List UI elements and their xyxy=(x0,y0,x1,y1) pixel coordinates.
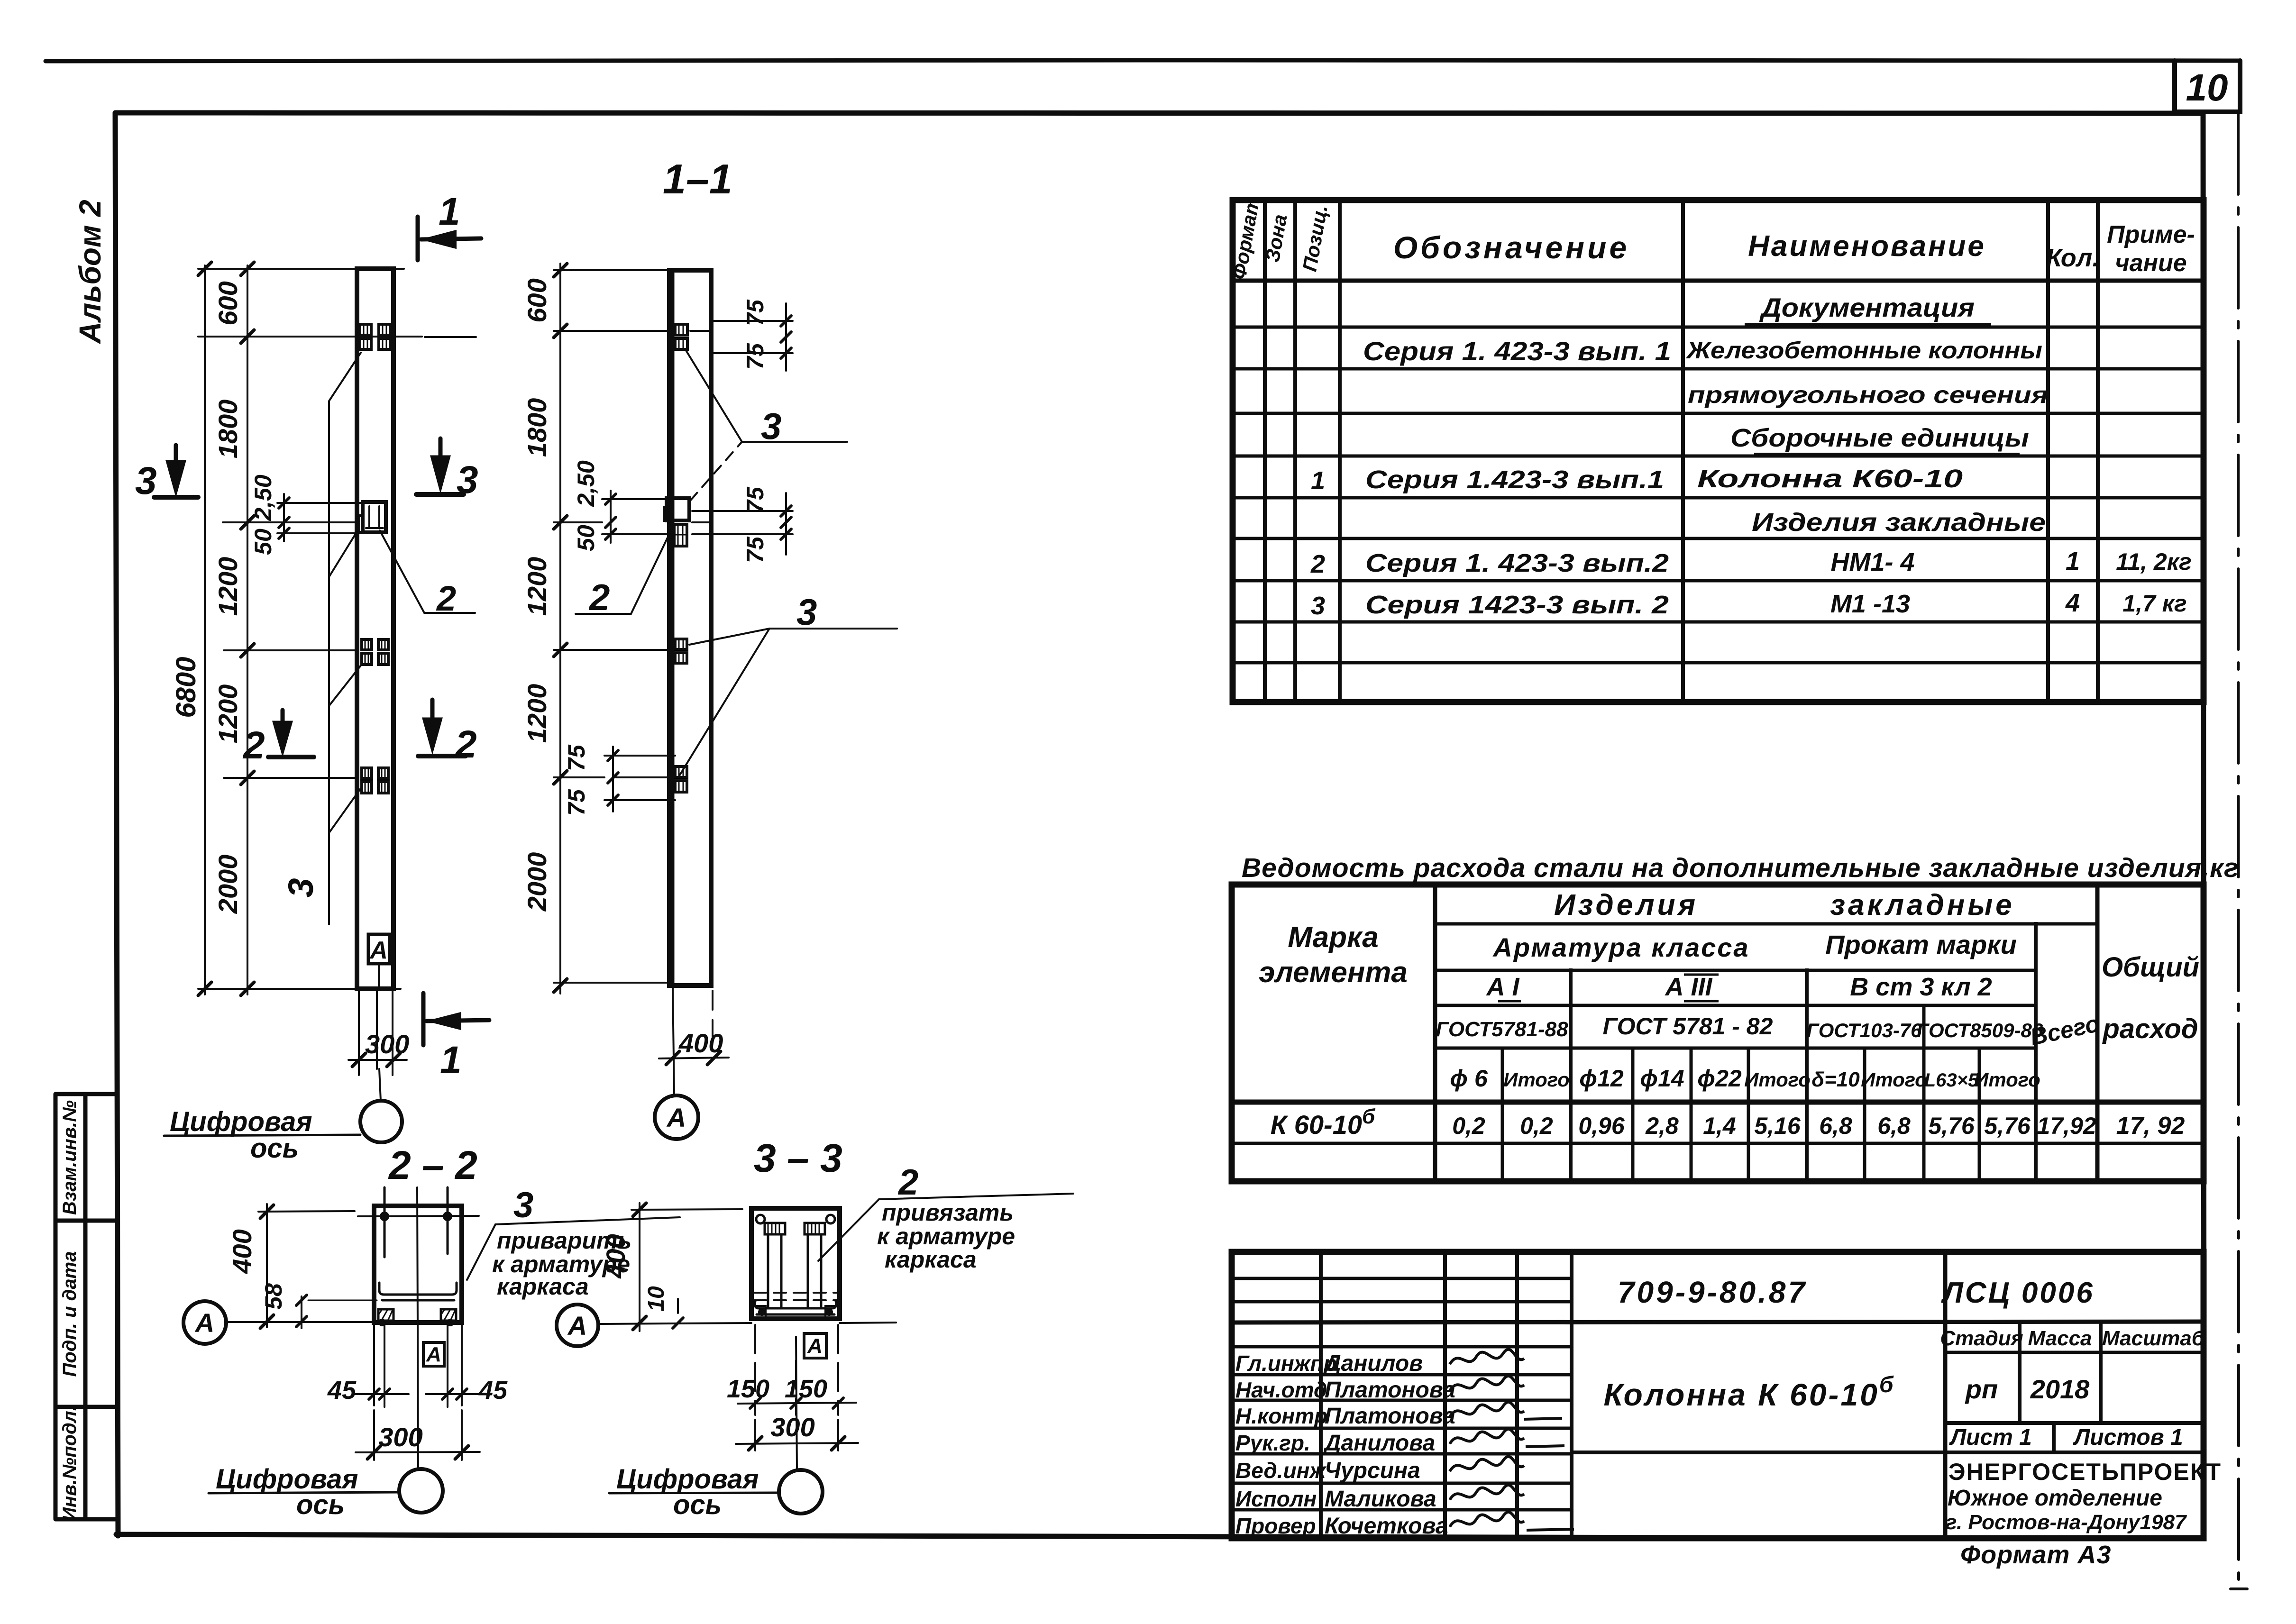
dim 300 below 3-3 xyxy=(755,1420,838,1451)
svg-text:А: А xyxy=(567,1311,587,1341)
svg-text:10: 10 xyxy=(2186,66,2228,109)
svg-text:Н.контр: Н.контр xyxy=(1235,1404,1327,1428)
section mark 3 (right of column 1) xyxy=(416,438,464,494)
svg-text:А: А xyxy=(426,1343,441,1366)
steel table horizontals xyxy=(1435,922,2097,926)
sheet top trim line xyxy=(46,60,2240,61)
leader line pos 2 (column 1) xyxy=(380,530,475,613)
section mark 3 (left) xyxy=(154,445,198,497)
title block outer border xyxy=(1232,1252,2204,1538)
svg-text:2 – 2: 2 – 2 xyxy=(388,1143,477,1187)
svg-text:Итого: Итого xyxy=(1974,1068,2040,1091)
svg-text:2018: 2018 xyxy=(2030,1374,2090,1404)
svg-text:ГОСТ5781-88: ГОСТ5781-88 xyxy=(1436,1018,1568,1041)
svg-text:элемента: элемента xyxy=(1259,956,1408,989)
svg-text:1–1: 1–1 xyxy=(663,155,732,202)
svg-text:Итого: Итого xyxy=(1861,1068,1927,1091)
svg-text:ГОСТ103-76: ГОСТ103-76 xyxy=(1806,1019,1922,1041)
svg-text:300: 300 xyxy=(365,1029,409,1059)
svg-text:Листов 1: Листов 1 xyxy=(2073,1425,2183,1450)
svg-text:1200: 1200 xyxy=(213,557,243,616)
axis circle below 3-3 xyxy=(779,1470,823,1514)
column K60-10 body (view 1) xyxy=(357,269,393,989)
svg-text:М1 -13: М1 -13 xyxy=(1830,590,1910,618)
leader line pos 3 (column 1) xyxy=(329,353,361,924)
centerline of 2-2 xyxy=(417,1187,418,1469)
svg-text:6,8: 6,8 xyxy=(1877,1113,1911,1139)
svg-text:45: 45 xyxy=(478,1376,508,1405)
svg-text:Итого: Итого xyxy=(1503,1068,1570,1091)
dims 75/75 left of lower plate xyxy=(604,756,675,800)
svg-text:75: 75 xyxy=(742,343,768,370)
bottom dim 400 of view 1-1 xyxy=(655,987,729,1139)
embedded plates pair at 3rd mark xyxy=(362,768,372,778)
svg-text:5,76: 5,76 xyxy=(1984,1113,2031,1139)
svg-text:400: 400 xyxy=(227,1229,257,1274)
section mark 1 (bottom) xyxy=(423,993,489,1045)
svg-text:каркаса: каркаса xyxy=(885,1246,977,1273)
svg-text:А: А xyxy=(194,1308,214,1338)
svg-text:2: 2 xyxy=(436,579,456,618)
drawing frame xyxy=(116,113,2203,113)
svg-text:2: 2 xyxy=(588,576,610,618)
leader pos 3 (bottom, view 1-1) xyxy=(689,629,897,645)
centerline of 3-3 xyxy=(796,1337,797,1470)
dim 58 xyxy=(301,1296,302,1328)
svg-text:Альбом 2: Альбом 2 xyxy=(73,200,107,344)
svg-text:1: 1 xyxy=(439,190,460,233)
svg-text:ГОСТ 5781 - 82: ГОСТ 5781 - 82 xyxy=(1603,1013,1773,1040)
section mark 2 (left) xyxy=(268,710,314,757)
section 2-2 outline xyxy=(374,1206,462,1323)
svg-text:δ=10: δ=10 xyxy=(1811,1068,1860,1091)
svg-text:L63×5: L63×5 xyxy=(1924,1070,1979,1091)
svg-text:ЭНЕРГОСЕТЬПРОЕКТ: ЭНЕРГОСЕТЬПРОЕКТ xyxy=(1948,1459,2222,1485)
extra signature flourishes xyxy=(1524,1418,1574,1530)
sheet number box xyxy=(2175,61,2240,112)
plate M1-13 on view 1-1 (top) xyxy=(675,324,687,335)
dim 400 (section 2-2) xyxy=(266,1204,268,1327)
svg-text:Провер: Провер xyxy=(1235,1514,1316,1538)
svg-text:ось: ось xyxy=(250,1133,299,1164)
svg-text:1: 1 xyxy=(1311,466,1325,495)
extension lines xyxy=(198,268,404,270)
svg-text:Формат А3: Формат А3 xyxy=(1960,1541,2111,1569)
svg-text:3: 3 xyxy=(761,405,781,447)
svg-text:Маликова: Маликова xyxy=(1325,1487,1436,1512)
small dims 250 / 50 at HM plate xyxy=(277,503,363,533)
bottom plate xyxy=(755,1301,836,1308)
svg-text:Масштаб: Масштаб xyxy=(2102,1327,2205,1350)
embedded plates M1-13 pair at 600 mark xyxy=(360,324,371,335)
svg-text:К 60-10б: К 60-10б xyxy=(1271,1105,1376,1140)
spec table horizontals xyxy=(1233,279,2204,283)
svg-text:А: А xyxy=(369,937,388,964)
dims 45 / 45 below 2-2 xyxy=(209,1324,481,1513)
svg-text:Стадия: Стадия xyxy=(1940,1327,2023,1350)
svg-text:Вед.инж: Вед.инж xyxy=(1235,1458,1326,1483)
axis line and circle A (section 2-2) xyxy=(226,1321,374,1323)
svg-text:3: 3 xyxy=(281,878,320,897)
dims 250/50 left of HM unit xyxy=(602,499,674,534)
svg-text:Итого: Итого xyxy=(1744,1068,1811,1091)
svg-text:Данилова: Данилова xyxy=(1323,1431,1435,1456)
svg-text:Масса: Масса xyxy=(2028,1327,2092,1350)
dims 150/150 below 3-3 xyxy=(609,1325,858,1514)
svg-text:75: 75 xyxy=(742,536,768,563)
leader pos 2 (view 1-1) xyxy=(576,533,670,614)
svg-text:каркаса: каркаса xyxy=(497,1273,589,1300)
svg-text:Подп. и дата: Подп. и дата xyxy=(59,1251,80,1377)
embedded plates pair at 2nd mark xyxy=(362,639,372,650)
svg-text:прямоугольного сечения: прямоугольного сечения xyxy=(1688,382,2048,408)
svg-text:3 – 3: 3 – 3 xyxy=(754,1136,842,1180)
svg-text:ГОСТ8509-86: ГОСТ8509-86 xyxy=(1917,1019,2043,1041)
svg-text:2: 2 xyxy=(1310,550,1325,578)
steel table verticals xyxy=(1433,885,1437,1181)
dim 300 below 2-2 xyxy=(374,1410,462,1460)
svg-text:А: А xyxy=(807,1334,823,1358)
svg-text:Ведомость расхода стали на доп: Ведомость расхода стали на дополнительны… xyxy=(1242,853,2239,883)
svg-text:2000: 2000 xyxy=(213,855,243,914)
svg-text:17,92: 17,92 xyxy=(2037,1113,2096,1139)
svg-text:Нач.отд: Нач.отд xyxy=(1235,1378,1327,1402)
svg-text:11, 2кг: 11, 2кг xyxy=(2116,548,2192,575)
svg-text:3: 3 xyxy=(135,459,157,502)
bent plate inside 2-2 xyxy=(379,1283,457,1295)
svg-text:1,4: 1,4 xyxy=(1703,1113,1736,1139)
svg-text:2,50: 2,50 xyxy=(250,474,276,521)
boxed A mark (2-2) xyxy=(423,1342,444,1366)
svg-text:НМ1- 4: НМ1- 4 xyxy=(1830,548,1914,576)
svg-text:600: 600 xyxy=(522,278,552,322)
svg-text:1200: 1200 xyxy=(213,684,243,744)
svg-text:3: 3 xyxy=(513,1185,533,1225)
svg-text:Прокат марки: Прокат марки xyxy=(1825,930,2017,959)
svg-text:Серия 1. 423-3 вып.2: Серия 1. 423-3 вып.2 xyxy=(1365,549,1669,577)
chain dim line (600/1800/1200/1200/2000) xyxy=(247,265,248,994)
svg-text:300: 300 xyxy=(378,1422,422,1452)
svg-text:чание: чание xyxy=(2115,249,2186,277)
svg-text:45: 45 xyxy=(327,1376,357,1405)
title block verticals xyxy=(1321,1252,1572,1538)
svg-text:75: 75 xyxy=(563,744,590,771)
dim 400 (section 3-3) xyxy=(639,1203,640,1331)
svg-text:ϕ14: ϕ14 xyxy=(1640,1065,1684,1092)
svg-text:1800: 1800 xyxy=(522,398,552,457)
svg-text:Платонова: Платонова xyxy=(1325,1378,1455,1403)
svg-text:3: 3 xyxy=(457,458,478,502)
svg-text:Лист 1: Лист 1 xyxy=(1949,1425,2032,1450)
svg-text:Взам.инв.№: Взам.инв.№ xyxy=(59,1100,80,1215)
svg-text:Рук.гр.: Рук.гр. xyxy=(1235,1431,1310,1455)
svg-text:0,2: 0,2 xyxy=(1520,1113,1553,1139)
svg-text:Железобетонные колонны: Железобетонные колонны xyxy=(1685,337,2042,364)
svg-text:ϕ22: ϕ22 xyxy=(1697,1065,1742,1092)
unit HM1-4 on view 1-1 (pos 2) xyxy=(667,498,689,520)
left stamp boxes xyxy=(55,1094,116,1519)
svg-text:ось: ось xyxy=(296,1489,345,1520)
steel table outer border xyxy=(1232,885,2204,1181)
svg-text:50: 50 xyxy=(573,525,599,551)
svg-text:150: 150 xyxy=(727,1375,769,1403)
column body (view 1-1) xyxy=(669,270,711,985)
title block horizontals xyxy=(1232,1278,1572,1302)
svg-text:В ст 3 кл 2: В ст 3 кл 2 xyxy=(1850,973,1992,1001)
svg-text:Серия 1423-3 вып. 2: Серия 1423-3 вып. 2 xyxy=(1365,591,1669,619)
section 3-3 outline xyxy=(751,1208,840,1319)
spec table verticals xyxy=(1265,200,2098,702)
svg-text:1800: 1800 xyxy=(213,400,243,459)
svg-text:Сборочные единицы: Сборочные единицы xyxy=(1730,424,2029,452)
leader pos 3 (top, view 1-1) xyxy=(686,351,847,442)
dims 75/75 right of top plate xyxy=(711,321,793,353)
plate M1-13 on view 1-1 (lower) xyxy=(675,766,687,777)
embedded unit HM1-4 (pos 2) on column 1 xyxy=(363,502,386,532)
svg-text:г. Ростов-на-Дону1987: г. Ростов-на-Дону1987 xyxy=(1946,1511,2187,1534)
svg-text:Наименование: Наименование xyxy=(1748,230,1986,263)
boxed A mark inside column 1 xyxy=(368,934,390,989)
extension lines xyxy=(554,269,669,271)
svg-text:58: 58 xyxy=(260,1283,287,1310)
svg-text:ось: ось xyxy=(673,1489,722,1520)
svg-text:50: 50 xyxy=(250,529,276,555)
bottom anchor angles xyxy=(378,1309,456,1321)
svg-text:300: 300 xyxy=(770,1412,814,1442)
svg-text:75: 75 xyxy=(563,789,590,816)
boxed A mark (3-3) xyxy=(804,1333,826,1358)
svg-text:709-9-80.87: 709-9-80.87 xyxy=(1618,1275,1807,1309)
svg-text:17, 92: 17, 92 xyxy=(2116,1112,2185,1140)
svg-text:3: 3 xyxy=(796,591,817,633)
svg-text:1,7 кг: 1,7 кг xyxy=(2122,590,2186,617)
svg-text:Колонна К60-10: Колонна К60-10 xyxy=(1697,465,1963,493)
svg-text:2000: 2000 xyxy=(522,852,552,912)
svg-text:150: 150 xyxy=(785,1375,827,1403)
svg-text:Чурсина: Чурсина xyxy=(1325,1458,1420,1483)
overall dim line 6800 xyxy=(204,265,206,994)
svg-text:расход: расход xyxy=(2102,1013,2198,1044)
svg-text:0,2: 0,2 xyxy=(1452,1113,1485,1139)
chain dim line xyxy=(559,264,561,994)
svg-text:2: 2 xyxy=(897,1162,918,1203)
svg-text:Документация: Документация xyxy=(1759,292,1975,322)
svg-text:6,8: 6,8 xyxy=(1819,1113,1852,1139)
svg-text:400: 400 xyxy=(678,1028,723,1058)
hanging anchor loops xyxy=(756,1215,765,1223)
axis circle A (view 1-1) xyxy=(655,1095,698,1139)
svg-text:закладные: закладные xyxy=(1830,889,2014,921)
svg-text:400: 400 xyxy=(601,1234,631,1278)
anchor rods xyxy=(384,1187,448,1257)
svg-text:1200: 1200 xyxy=(522,557,552,616)
svg-text:10: 10 xyxy=(644,1286,669,1312)
svg-text:1: 1 xyxy=(2066,547,2080,575)
svg-text:2,8: 2,8 xyxy=(1645,1113,1679,1139)
svg-text:Приме-: Приме- xyxy=(2107,221,2195,248)
svg-text:Данилов: Данилов xyxy=(1323,1351,1423,1376)
dims 75/75 right of HM unit xyxy=(692,511,793,534)
svg-text:600: 600 xyxy=(213,281,243,325)
svg-text:Кол.: Кол. xyxy=(2046,244,2100,272)
svg-text:Серия 1.423-3 вып.1: Серия 1.423-3 вып.1 xyxy=(1365,465,1664,494)
axis circle below 2-2 xyxy=(399,1469,443,1513)
svg-text:Общий: Общий xyxy=(2102,952,2199,983)
svg-text:ЛСЦ 0006: ЛСЦ 0006 xyxy=(1941,1277,2095,1309)
svg-text:Марка: Марка xyxy=(1288,921,1378,954)
spec table outer border xyxy=(1233,200,2204,702)
dim 10 xyxy=(673,1318,683,1328)
section mark 2 (right of column 1) xyxy=(418,700,466,756)
svg-text:2,50: 2,50 xyxy=(573,460,599,507)
svg-text:А: А xyxy=(666,1103,686,1132)
svg-text:1200: 1200 xyxy=(522,684,552,743)
svg-text:Исполн: Исполн xyxy=(1235,1487,1317,1511)
svg-text:А III: А III xyxy=(1664,973,1712,1001)
svg-text:0,96: 0,96 xyxy=(1578,1113,1625,1139)
svg-text:привязать: привязать xyxy=(882,1199,1014,1226)
axis circle (column 1) xyxy=(360,1101,402,1142)
svg-text:Гл.инжпр: Гл.инжпр xyxy=(1235,1351,1337,1376)
svg-text:ϕ12: ϕ12 xyxy=(1579,1065,1624,1092)
svg-text:5,76: 5,76 xyxy=(1928,1113,1975,1139)
svg-text:Изделия закладные: Изделия закладные xyxy=(1752,508,2046,537)
plate dashed edges xyxy=(754,1293,837,1300)
svg-text:1: 1 xyxy=(440,1039,462,1082)
svg-text:рп: рп xyxy=(1965,1374,1998,1404)
svg-text:Инв.№подл.: Инв.№подл. xyxy=(59,1405,80,1521)
bottom dim 300 of column 1 xyxy=(164,991,407,1142)
outer right trim line (dash-dot) xyxy=(2238,114,2239,1589)
axis line and circle A (section 3-3) xyxy=(598,1323,896,1324)
svg-text:5,16: 5,16 xyxy=(1754,1113,1801,1139)
svg-text:4: 4 xyxy=(2065,589,2080,617)
section mark 1 (top) xyxy=(418,217,481,260)
svg-text:А I: А I xyxy=(1485,973,1519,1001)
svg-text:Изделия: Изделия xyxy=(1554,889,1698,921)
svg-text:Кочеткова: Кочеткова xyxy=(1325,1514,1448,1539)
svg-text:75: 75 xyxy=(742,486,768,513)
svg-text:Арматура класса: Арматура класса xyxy=(1492,932,1749,962)
svg-text:Серия 1. 423-3 вып. 1: Серия 1. 423-3 вып. 1 xyxy=(1363,336,1671,366)
svg-text:3: 3 xyxy=(1311,592,1325,620)
svg-text:Платонова: Платонова xyxy=(1325,1404,1455,1429)
svg-text:2: 2 xyxy=(454,723,477,766)
svg-text:ϕ 6: ϕ 6 xyxy=(1450,1065,1488,1092)
svg-text:6800: 6800 xyxy=(171,657,201,718)
plate M1-13 on view 1-1 (middle) xyxy=(675,639,687,649)
svg-text:Южное отделение: Южное отделение xyxy=(1948,1486,2162,1511)
svg-text:Обозначение: Обозначение xyxy=(1393,230,1629,265)
svg-text:2: 2 xyxy=(242,724,265,767)
svg-text:75: 75 xyxy=(742,299,768,326)
svg-text:к арматуре: к арматуре xyxy=(877,1223,1015,1250)
svg-text:Колонна К 60-10б: Колонна К 60-10б xyxy=(1603,1372,1895,1412)
